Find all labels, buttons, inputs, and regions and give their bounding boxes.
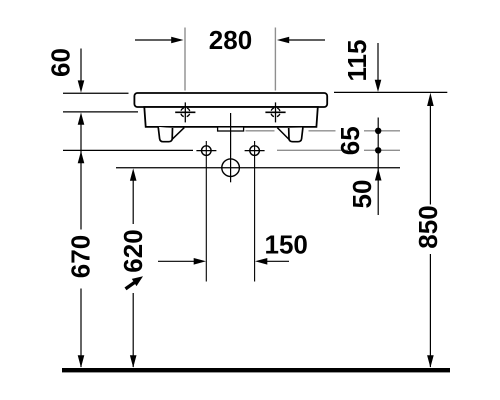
left bolt hole circle — [202, 146, 212, 156]
right foot diagonal strut — [277, 128, 289, 140]
horizontal reference line drain level — [116, 167, 400, 169]
dimension 150 left arrow — [158, 260, 195, 262]
installation direction arrow symbol — [126, 276, 144, 289]
dimension 150 right arrow — [267, 260, 289, 262]
left foot — [158, 127, 172, 142]
dimension 850 upper line with up arrow — [429, 103, 431, 205]
svg-text:50: 50 — [347, 180, 377, 209]
right bolt hole circle — [250, 146, 260, 156]
right bolt hole cross — [245, 150, 265, 152]
svg-text:60: 60 — [46, 48, 76, 77]
svg-text:65: 65 — [335, 126, 365, 155]
extension line left for 150 dim — [205, 141, 207, 282]
left faucet hole dashed circle — [181, 108, 190, 117]
dimension 280 right arrow — [289, 39, 326, 41]
horizontal reference line A bolt level left — [63, 149, 193, 151]
dimension 850 lower line with down arrow — [429, 254, 431, 367]
right foot — [289, 128, 303, 142]
gray line at bolt-hole level y=150 (right part) — [277, 149, 400, 151]
center line through drain — [230, 113, 232, 182]
dimension 60 line upper — [80, 49, 82, 82]
svg-text:670: 670 — [66, 235, 96, 278]
right faucet hole dashed circle — [271, 108, 280, 117]
left faucet hole cross — [175, 111, 195, 113]
dimension 620 lower line with down arrow — [132, 293, 134, 367]
horizontal reference line B2 under-rim level left — [63, 111, 138, 113]
svg-text:850: 850 — [413, 205, 443, 248]
dimension 280 extension line right — [274, 28, 276, 91]
dimension 670 lower line — [80, 289, 82, 368]
right faucet hole cross — [265, 111, 285, 113]
svg-text:115: 115 — [342, 40, 372, 82]
left bolt hole cross — [196, 150, 216, 152]
gray line at drain-plate level y=131 — [246, 130, 401, 132]
drain circle — [222, 159, 240, 177]
svg-text:280: 280 — [209, 25, 252, 55]
extension line right for 150 dim — [254, 141, 256, 282]
dimension 670 up arrow at bolt-level line — [78, 151, 85, 163]
dimension 620 upper line with up arrow — [132, 179, 134, 224]
horizontal reference line C rim-top level right — [334, 91, 447, 93]
dimension 50 up arrow at drain-level line — [375, 168, 382, 180]
dimension 280 left arrow — [135, 39, 172, 41]
svg-text:620: 620 — [118, 229, 148, 272]
basin body outline — [144, 107, 317, 127]
drain tab under body — [218, 127, 244, 131]
vertical line through 65 dots — [377, 118, 379, 216]
svg-text:150: 150 — [265, 230, 308, 260]
dimension 60 line lower with up arrow — [80, 123, 82, 230]
65 lower dot — [375, 147, 381, 153]
basin rim outline — [134, 93, 327, 107]
65 upper dot — [375, 128, 381, 134]
left foot diagonal strut — [172, 128, 184, 140]
dimension 115 line with down arrow — [377, 43, 379, 81]
floor line — [62, 368, 450, 372]
horizontal reference line B1 rim-top level left — [63, 92, 129, 94]
dimension 280 extension line left — [184, 28, 186, 91]
